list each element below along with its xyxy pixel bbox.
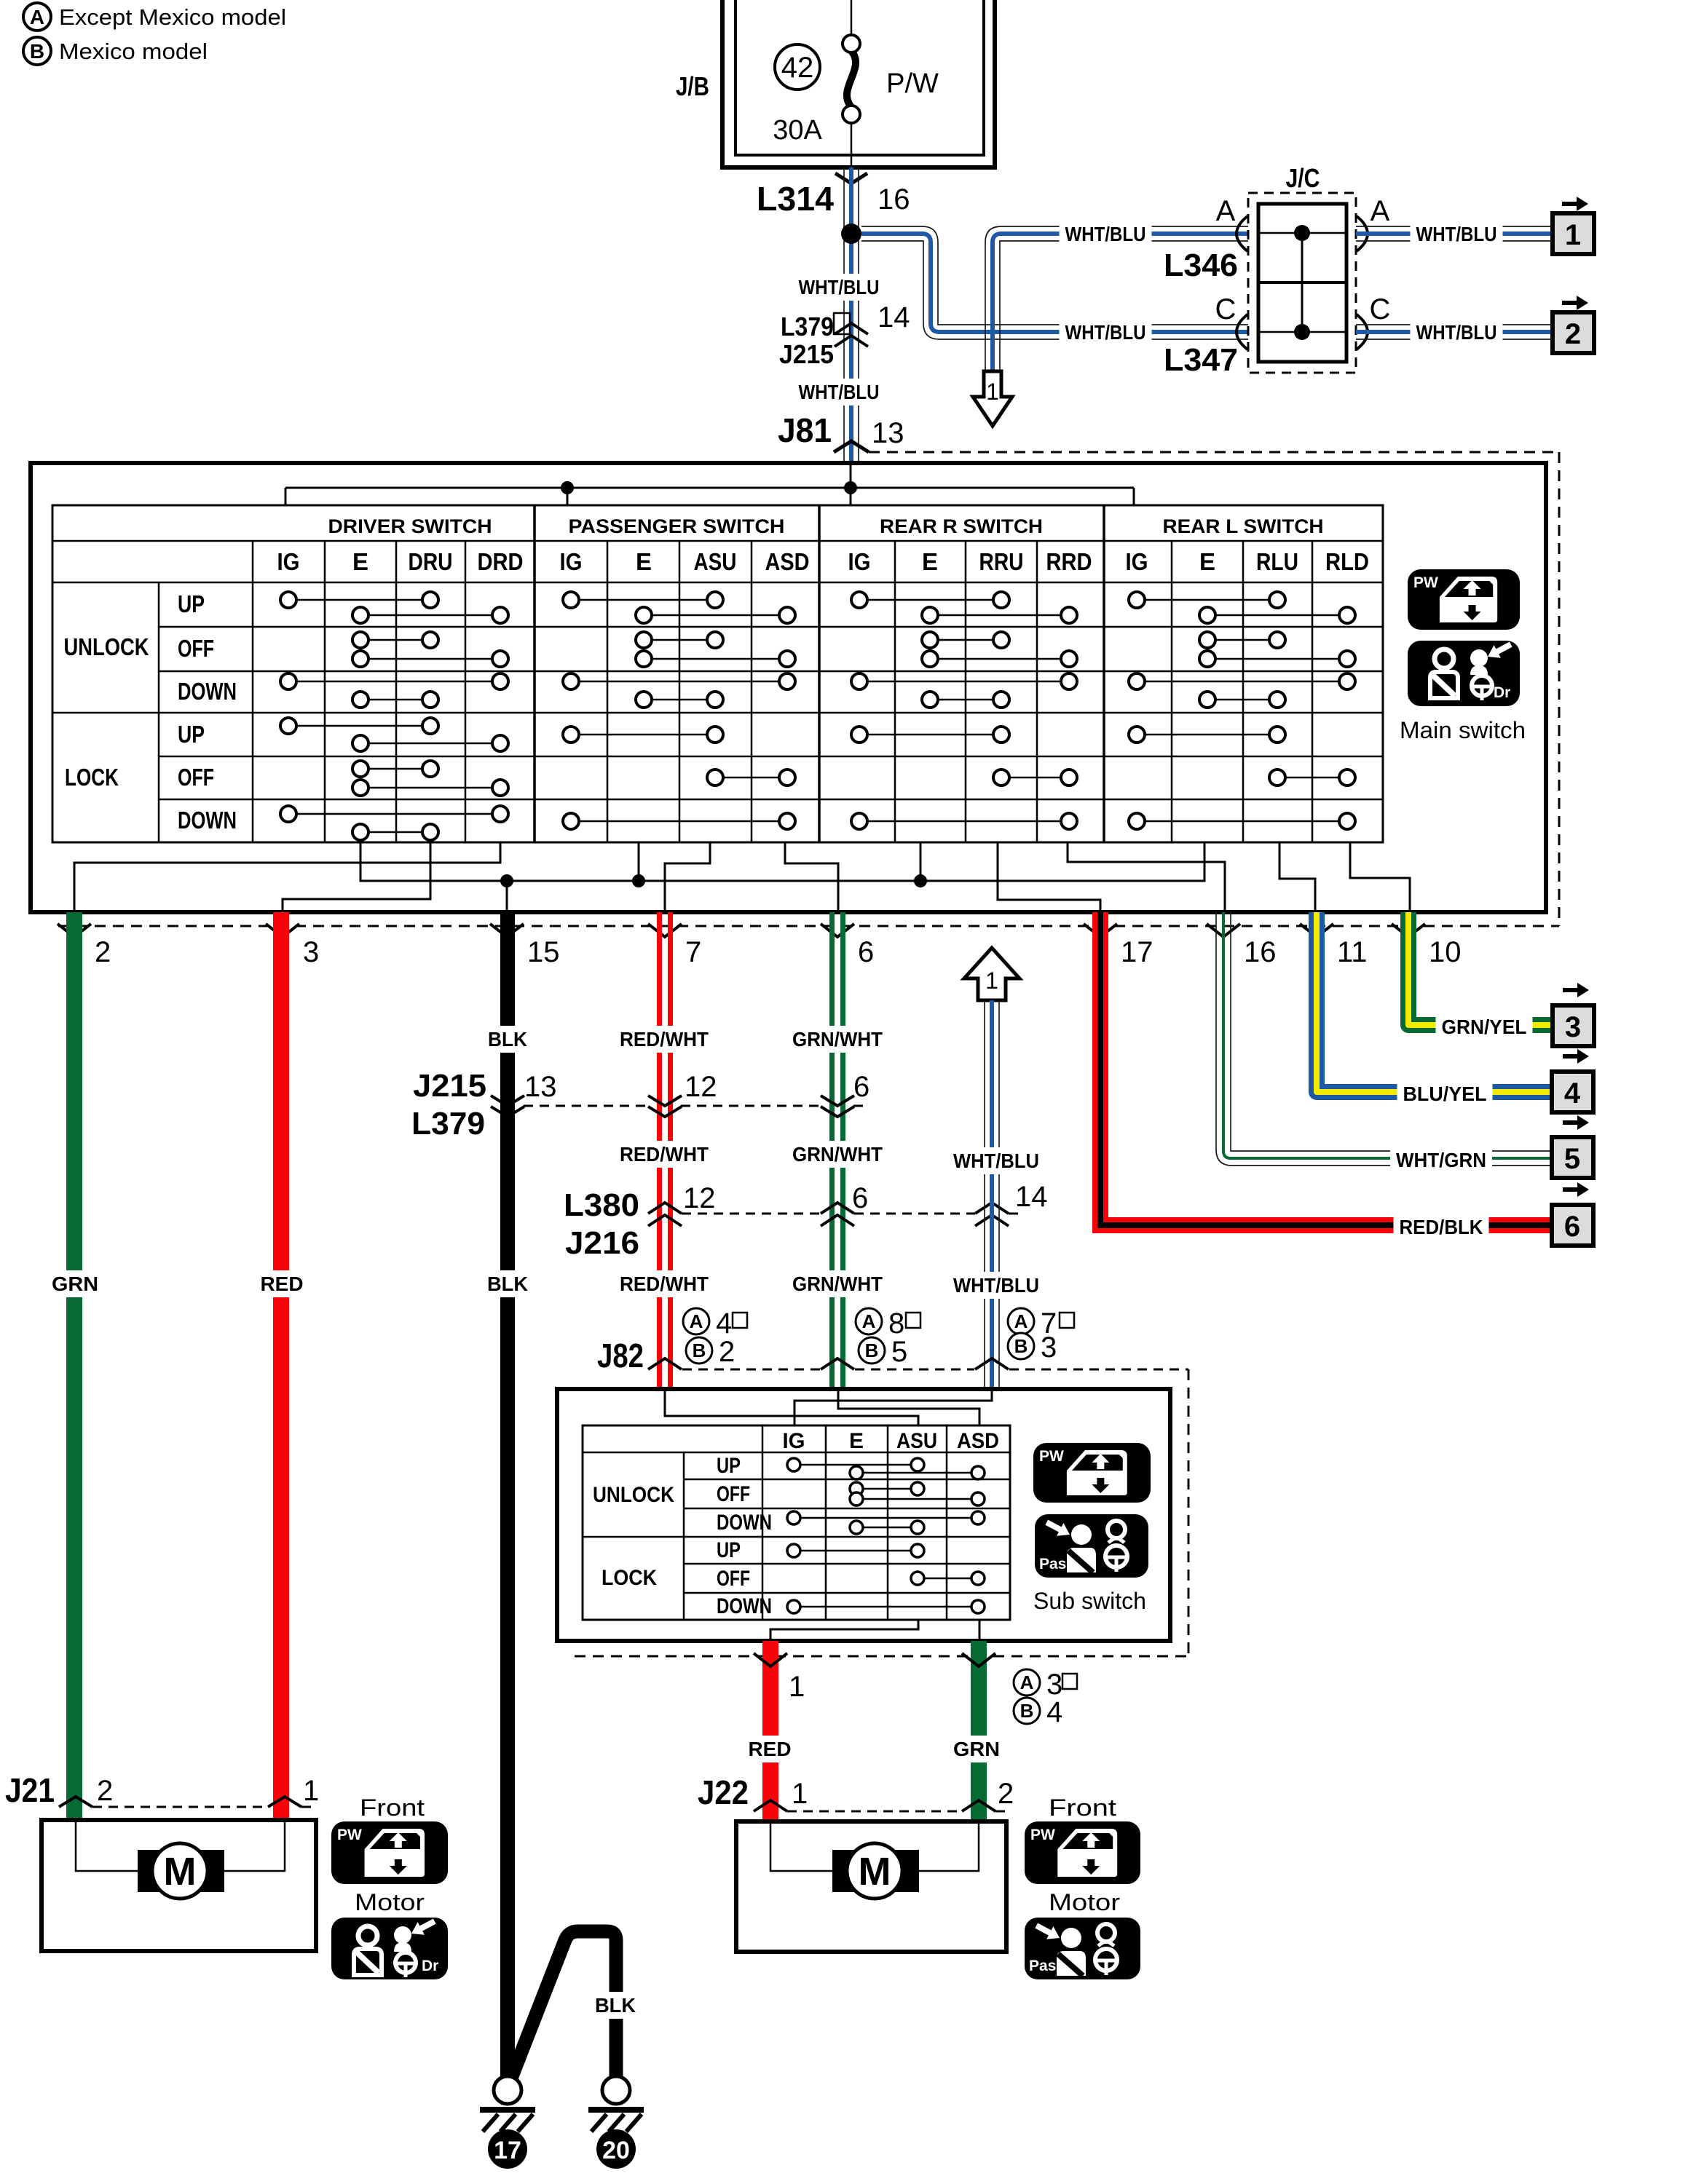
wire WHT/BLU arrow to sub switch bbox=[985, 1000, 999, 1389]
svg-text:J81: J81 bbox=[778, 411, 832, 449]
svg-text:2: 2 bbox=[998, 1778, 1014, 1810]
front motor (driver) bbox=[42, 1820, 316, 1951]
main switch contact table bbox=[52, 505, 1383, 842]
main switch pin 2 exit bbox=[58, 924, 111, 968]
wire WHT/BLU to connector 2 bbox=[1356, 325, 1553, 339]
svg-text:4: 4 bbox=[1046, 1696, 1062, 1728]
driver motor Dr icon bbox=[331, 1915, 448, 1979]
svg-text:OFF: OFF bbox=[717, 1567, 750, 1591]
main switch pin 6 exit bbox=[821, 924, 874, 968]
svg-text:OFF: OFF bbox=[178, 635, 214, 662]
svg-text:OFF: OFF bbox=[178, 764, 214, 791]
main switch unit box bbox=[31, 463, 1546, 912]
svg-text:WHT/BLU: WHT/BLU bbox=[1416, 321, 1497, 344]
wire label WHT/BLU bbox=[947, 1272, 1045, 1299]
svg-text:Pas: Pas bbox=[1029, 1958, 1056, 1974]
svg-text:REAR R SWITCH: REAR R SWITCH bbox=[880, 515, 1043, 537]
svg-text:B: B bbox=[865, 1340, 879, 1361]
svg-text:B: B bbox=[693, 1340, 706, 1361]
svg-text:42: 42 bbox=[781, 52, 814, 84]
wire WHT/BLU from fuse to main switch bbox=[844, 167, 859, 463]
svg-text:L379: L379 bbox=[781, 312, 834, 341]
connector terminal 3 bbox=[1553, 983, 1594, 1046]
wire label GRN/WHT bbox=[786, 1270, 888, 1297]
svg-text:WHT/BLU: WHT/BLU bbox=[1065, 223, 1146, 245]
svg-text:DOWN: DOWN bbox=[178, 807, 237, 834]
junction connector J/C (L346/L347) bbox=[1248, 163, 1356, 373]
svg-text:12: 12 bbox=[683, 1182, 716, 1214]
wire RRD to pin 16 bbox=[1068, 842, 1225, 912]
wire label WHT/BLU bbox=[1411, 221, 1503, 248]
wire RED/WHT to ASU column bbox=[665, 1389, 918, 1425]
J82 pin labels A4/B2 bbox=[683, 1307, 747, 1368]
wire label WHT/BLU (A row) bbox=[1060, 221, 1152, 248]
svg-text:IG: IG bbox=[783, 1429, 805, 1453]
svg-text:RED/WHT: RED/WHT bbox=[620, 1143, 709, 1166]
label L347 bbox=[1164, 342, 1238, 378]
svg-text:6: 6 bbox=[1564, 1211, 1580, 1243]
wire label BLK bbox=[482, 1026, 533, 1053]
svg-text:DRIVER SWITCH: DRIVER SWITCH bbox=[328, 515, 492, 537]
driver motor PW icon bbox=[331, 1821, 448, 1884]
wire RED pin 3 to driver motor bbox=[273, 912, 289, 1820]
sub switch passenger icon bbox=[1035, 1514, 1148, 1578]
svg-text:J82: J82 bbox=[597, 1337, 644, 1374]
fuse 42 30A P/W bbox=[773, 0, 939, 167]
wire RRU to pin 17 bbox=[998, 842, 1100, 912]
svg-text:WHT/BLU: WHT/BLU bbox=[799, 276, 880, 298]
svg-text:Motor: Motor bbox=[355, 1889, 425, 1915]
svg-text:BLK: BLK bbox=[595, 1994, 636, 2017]
svg-text:2: 2 bbox=[719, 1336, 735, 1368]
svg-text:11: 11 bbox=[1337, 936, 1368, 968]
svg-text:PW: PW bbox=[1413, 574, 1438, 591]
svg-text:BLK: BLK bbox=[487, 1273, 528, 1295]
svg-text:14: 14 bbox=[1015, 1181, 1048, 1213]
svg-text:IG: IG bbox=[848, 548, 871, 575]
label Sub switch bbox=[1033, 1588, 1146, 1614]
main switch pin 7 exit bbox=[648, 924, 701, 968]
wire WHT/GRN pin 16 to connector 5 bbox=[1216, 912, 1552, 1166]
svg-text:B: B bbox=[1020, 1700, 1034, 1722]
wire GRN/WHT pin 6 to sub switch bbox=[832, 912, 843, 1389]
svg-text:17: 17 bbox=[494, 2137, 521, 2164]
svg-text:GRN/YEL: GRN/YEL bbox=[1442, 1016, 1527, 1038]
connector terminal 1 bbox=[1553, 197, 1594, 254]
wire GRN sub pin to passenger motor bbox=[971, 1641, 987, 1821]
svg-text:J216: J216 bbox=[565, 1225, 639, 1261]
main switch pin 11 exit bbox=[1300, 924, 1368, 968]
svg-text:Front: Front bbox=[360, 1795, 425, 1821]
svg-text:Pas: Pas bbox=[1039, 1556, 1066, 1572]
svg-text:3: 3 bbox=[1041, 1332, 1057, 1364]
svg-text:M: M bbox=[164, 1850, 197, 1894]
svg-text:PW: PW bbox=[1030, 1827, 1055, 1843]
internal IG supply bus bbox=[285, 463, 1134, 506]
sub pin 1 exit bbox=[754, 1653, 805, 1703]
svg-text:A: A bbox=[690, 1310, 703, 1332]
rear R switch contacts bbox=[851, 592, 1077, 829]
svg-text:DRU: DRU bbox=[409, 548, 453, 575]
connector boundary (dashed) of main switch bbox=[58, 452, 1559, 926]
wire label RED/WHT bbox=[614, 1026, 714, 1053]
svg-text:E: E bbox=[922, 548, 938, 575]
connector terminal 4 bbox=[1552, 1049, 1593, 1112]
svg-text:14: 14 bbox=[877, 301, 910, 333]
label L346 bbox=[1164, 248, 1238, 283]
wire DRD to pin 2 bbox=[74, 842, 500, 912]
wire label RED/WHT bbox=[614, 1270, 714, 1297]
svg-text:J22: J22 bbox=[698, 1773, 749, 1811]
passenger motor Pas icon bbox=[1025, 1918, 1140, 1979]
connector J215/L379 pins 13 12 6 bbox=[411, 1068, 869, 1142]
svg-text:A: A bbox=[1216, 195, 1236, 227]
svg-text:GRN/WHT: GRN/WHT bbox=[792, 1273, 883, 1295]
svg-text:RED: RED bbox=[261, 1273, 304, 1295]
legend note A bbox=[23, 3, 286, 31]
svg-text:DOWN: DOWN bbox=[178, 678, 237, 705]
svg-text:E: E bbox=[1199, 548, 1215, 575]
svg-text:E: E bbox=[352, 548, 368, 575]
sub switch unit box bbox=[557, 1389, 1170, 1641]
svg-text:J215: J215 bbox=[413, 1068, 486, 1104]
main switch pin 17 exit bbox=[1084, 924, 1153, 968]
connector J82 bbox=[597, 1337, 1188, 1374]
wire label WHT/GRN bbox=[1390, 1147, 1492, 1174]
svg-text:BLU/YEL: BLU/YEL bbox=[1403, 1083, 1487, 1105]
svg-text:J21: J21 bbox=[5, 1771, 55, 1809]
svg-text:WHT/BLU: WHT/BLU bbox=[799, 381, 880, 403]
wire label GRN/YEL bbox=[1436, 1013, 1533, 1040]
wire ASU to sub pin 1 bbox=[770, 1620, 918, 1641]
svg-text:15: 15 bbox=[527, 936, 560, 968]
svg-text:WHT/BLU: WHT/BLU bbox=[953, 1150, 1039, 1172]
connector L380/J216 pins 12 6 14 bbox=[564, 1181, 1048, 1261]
main switch pin 15 exit bbox=[490, 924, 560, 968]
svg-text:Front: Front bbox=[1049, 1795, 1116, 1821]
wire label BLK bbox=[481, 1270, 534, 1297]
svg-text:DOWN: DOWN bbox=[717, 1511, 772, 1535]
label Main switch bbox=[1400, 717, 1526, 743]
svg-text:WHT/BLU: WHT/BLU bbox=[1416, 223, 1497, 245]
svg-text:RRD: RRD bbox=[1046, 548, 1092, 575]
svg-text:RRU: RRU bbox=[979, 548, 1024, 575]
svg-text:16: 16 bbox=[877, 183, 910, 215]
svg-text:4: 4 bbox=[1564, 1077, 1581, 1109]
wire label WHT/BLU (C row) bbox=[1060, 319, 1152, 346]
svg-text:ASD: ASD bbox=[765, 548, 810, 575]
E common bus to pin 15 bbox=[360, 842, 1204, 912]
connector terminal 6 bbox=[1552, 1182, 1593, 1246]
J/C terminal A right bbox=[1357, 195, 1390, 251]
wire WHT/BLU to connector 1 bbox=[1356, 226, 1553, 241]
svg-text:WHT/BLU: WHT/BLU bbox=[1065, 321, 1146, 344]
svg-text:30A: 30A bbox=[773, 115, 822, 146]
svg-text:UP: UP bbox=[178, 721, 205, 748]
wire ASD to pin 6 bbox=[785, 842, 838, 912]
sub switch dashed connector boundary bbox=[575, 1369, 1188, 1656]
svg-text:1: 1 bbox=[986, 379, 999, 405]
wire WHT/BLU to IG column bbox=[794, 1389, 992, 1425]
svg-text:L380: L380 bbox=[564, 1187, 639, 1223]
svg-text:7: 7 bbox=[685, 936, 701, 968]
svg-text:J215: J215 bbox=[779, 339, 834, 369]
wire BLK branch to ground 20 bbox=[512, 1931, 616, 2077]
passenger motor Motor label bbox=[1049, 1889, 1120, 1915]
passenger motor Front label bbox=[1049, 1795, 1116, 1821]
svg-text:4: 4 bbox=[716, 1307, 732, 1340]
svg-text:GRN: GRN bbox=[953, 1738, 1000, 1760]
svg-text:17: 17 bbox=[1121, 936, 1153, 968]
connector L379/J215 pin 14 bbox=[779, 301, 910, 369]
svg-text:1: 1 bbox=[303, 1775, 319, 1807]
svg-text:WHT/GRN: WHT/GRN bbox=[1396, 1149, 1486, 1171]
main switch PW icon bbox=[1408, 569, 1520, 630]
wire ASU to pin 7 bbox=[665, 842, 710, 912]
svg-text:UP: UP bbox=[717, 1454, 741, 1478]
svg-text:UP: UP bbox=[178, 590, 205, 617]
sub switch contact table bbox=[583, 1425, 1010, 1620]
svg-text:6: 6 bbox=[853, 1071, 869, 1103]
wire label GRN bbox=[46, 1270, 104, 1297]
connector J22 pins 1 2 bbox=[698, 1773, 1014, 1811]
J/C terminal C left bbox=[1215, 293, 1247, 349]
wire label WHT/BLU bbox=[1411, 319, 1503, 346]
driver motor Front label bbox=[360, 1795, 425, 1821]
connector L314 pin 16 bbox=[757, 173, 910, 218]
J/C terminal C right bbox=[1357, 293, 1390, 349]
wire label BLK bbox=[589, 1992, 642, 2019]
svg-text:PASSENGER SWITCH: PASSENGER SWITCH bbox=[569, 515, 785, 537]
svg-text:WHT/BLU: WHT/BLU bbox=[953, 1274, 1039, 1297]
svg-text:A: A bbox=[862, 1310, 876, 1332]
svg-text:L346: L346 bbox=[1164, 248, 1238, 283]
connector J81 pin 13 bbox=[778, 411, 904, 452]
wire label RED bbox=[255, 1270, 309, 1297]
svg-text:Except Mexico model: Except Mexico model bbox=[59, 4, 286, 30]
svg-text:C: C bbox=[1370, 293, 1391, 325]
svg-text:10: 10 bbox=[1429, 936, 1462, 968]
svg-text:ASU: ASU bbox=[896, 1429, 937, 1453]
wire BLK pin 15 to grounds bbox=[500, 912, 515, 2077]
svg-text:RLD: RLD bbox=[1325, 548, 1369, 575]
wire label RED/BLK bbox=[1394, 1214, 1489, 1241]
svg-text:Main switch: Main switch bbox=[1400, 717, 1526, 743]
svg-text:GRN: GRN bbox=[52, 1273, 98, 1295]
svg-text:REAR L SWITCH: REAR L SWITCH bbox=[1163, 515, 1324, 537]
svg-text:16: 16 bbox=[1244, 936, 1277, 968]
wire label RED bbox=[743, 1736, 797, 1762]
svg-text:20: 20 bbox=[602, 2137, 630, 2164]
svg-text:2: 2 bbox=[95, 936, 111, 968]
svg-text:RED/WHT: RED/WHT bbox=[620, 1273, 709, 1295]
wire RED sub pin 1 to passenger motor bbox=[762, 1641, 778, 1821]
svg-text:DRD: DRD bbox=[478, 548, 524, 575]
svg-text:1: 1 bbox=[985, 968, 998, 994]
svg-text:E: E bbox=[849, 1429, 864, 1453]
svg-text:A: A bbox=[1370, 195, 1390, 227]
svg-text:A: A bbox=[1014, 1310, 1028, 1332]
front motor (passenger) bbox=[736, 1821, 1006, 1952]
wire label BLU/YEL bbox=[1397, 1080, 1493, 1107]
connector terminal 2 bbox=[1553, 296, 1594, 353]
svg-text:RLU: RLU bbox=[1256, 548, 1298, 575]
ground 17 bbox=[480, 2076, 535, 2169]
passenger motor PW icon bbox=[1025, 1821, 1140, 1884]
svg-text:P/W: P/W bbox=[886, 68, 939, 99]
svg-text:2: 2 bbox=[1565, 318, 1581, 350]
svg-text:E: E bbox=[636, 548, 652, 575]
svg-text:6: 6 bbox=[858, 936, 874, 968]
wire ASD to sub pin A3/B4 bbox=[979, 1620, 981, 1641]
svg-text:Dr: Dr bbox=[422, 1958, 438, 1974]
wire DRU to pin 3 bbox=[283, 842, 430, 912]
svg-text:13: 13 bbox=[872, 417, 904, 449]
svg-text:2: 2 bbox=[97, 1775, 113, 1807]
svg-text:L314: L314 bbox=[757, 180, 834, 218]
wire label WHT/BLU bbox=[793, 274, 886, 301]
svg-text:B: B bbox=[30, 40, 44, 63]
junction block J/B bbox=[676, 0, 995, 167]
svg-text:Dr: Dr bbox=[1494, 684, 1510, 701]
svg-text:Sub switch: Sub switch bbox=[1033, 1588, 1146, 1614]
svg-text:GRN/WHT: GRN/WHT bbox=[792, 1028, 883, 1051]
svg-text:LOCK: LOCK bbox=[602, 1566, 657, 1590]
wire label GRN/WHT bbox=[786, 1141, 888, 1168]
svg-text:6: 6 bbox=[852, 1182, 868, 1214]
wire RED/WHT pin 7 to sub switch bbox=[660, 912, 671, 1389]
svg-text:BLK: BLK bbox=[488, 1028, 527, 1051]
svg-text:13: 13 bbox=[524, 1071, 557, 1103]
wire label WHT/BLU bbox=[947, 1147, 1045, 1174]
wire RLU to pin 11 bbox=[1279, 842, 1315, 912]
svg-text:3: 3 bbox=[1565, 1011, 1581, 1043]
off-page arrow 1 (up) bbox=[964, 948, 1019, 1000]
svg-text:RED/WHT: RED/WHT bbox=[620, 1028, 709, 1051]
svg-text:B: B bbox=[1014, 1335, 1028, 1357]
svg-text:UNLOCK: UNLOCK bbox=[64, 633, 149, 660]
svg-text:5: 5 bbox=[891, 1336, 907, 1368]
wire RED/BLK pin 17 to connector 6 bbox=[1100, 912, 1552, 1225]
svg-text:1: 1 bbox=[789, 1671, 805, 1703]
svg-text:C: C bbox=[1215, 293, 1237, 325]
connector J21 pins 2 1 bbox=[5, 1771, 319, 1809]
svg-text:1: 1 bbox=[792, 1778, 808, 1810]
rear L switch contacts bbox=[1129, 592, 1355, 829]
passenger switch contacts bbox=[563, 592, 795, 829]
svg-text:DOWN: DOWN bbox=[717, 1594, 772, 1618]
wire GRN/YEL pin 10 to connector 3 bbox=[1408, 912, 1552, 1025]
svg-text:Motor: Motor bbox=[1049, 1889, 1120, 1915]
wire label WHT/BLU (over wire) bbox=[947, 1147, 1045, 1174]
main switch driver icon bbox=[1408, 638, 1520, 706]
svg-text:J/C: J/C bbox=[1286, 163, 1320, 193]
wire WHT/BLU from arrow 1 to L346 A bbox=[985, 226, 1248, 371]
svg-text:12: 12 bbox=[685, 1071, 717, 1103]
svg-text:A: A bbox=[30, 6, 44, 28]
wire WHT/BLU branch to L347 C bbox=[861, 226, 1248, 339]
svg-text:L379: L379 bbox=[411, 1106, 485, 1142]
sub switch PW icon bbox=[1033, 1443, 1151, 1503]
J82 pin labels A8/B5 bbox=[856, 1307, 920, 1368]
driver motor Motor label bbox=[355, 1889, 425, 1915]
wire GRN/WHT to ASD column bbox=[838, 1389, 979, 1425]
wire label GRN bbox=[947, 1736, 1006, 1762]
svg-text:LOCK: LOCK bbox=[65, 764, 119, 791]
J/C terminal A left bbox=[1216, 195, 1247, 251]
svg-text:M: M bbox=[859, 1850, 891, 1894]
main switch pin 16 exit bbox=[1207, 924, 1277, 968]
svg-text:IG: IG bbox=[560, 548, 583, 575]
legend note B bbox=[23, 37, 208, 65]
svg-text:1: 1 bbox=[1565, 219, 1581, 251]
driver switch contacts bbox=[280, 592, 508, 840]
wire label WHT/BLU bbox=[793, 379, 886, 405]
svg-text:5: 5 bbox=[1564, 1143, 1580, 1175]
svg-text:RED/BLK: RED/BLK bbox=[1400, 1216, 1483, 1238]
svg-text:ASD: ASD bbox=[957, 1429, 999, 1453]
wire label RED/WHT bbox=[614, 1141, 714, 1168]
svg-text:PW: PW bbox=[1039, 1448, 1064, 1465]
main switch pin 10 exit bbox=[1392, 924, 1462, 968]
svg-text:IG: IG bbox=[277, 548, 300, 575]
svg-text:ASU: ASU bbox=[694, 548, 737, 575]
svg-text:RED: RED bbox=[749, 1738, 792, 1760]
svg-text:3: 3 bbox=[303, 936, 319, 968]
svg-text:UNLOCK: UNLOCK bbox=[593, 1483, 674, 1507]
svg-text:GRN/WHT: GRN/WHT bbox=[792, 1143, 883, 1166]
svg-text:A: A bbox=[1020, 1671, 1034, 1693]
junction node (dot) bbox=[841, 223, 861, 244]
svg-text:8: 8 bbox=[888, 1307, 904, 1340]
svg-text:OFF: OFF bbox=[717, 1482, 750, 1506]
wire BLU/YEL pin 11 to connector 4 bbox=[1317, 912, 1552, 1092]
off-page arrow 1 (down) bbox=[973, 371, 1012, 426]
svg-text:IG: IG bbox=[1126, 548, 1148, 575]
connector terminal 5 bbox=[1552, 1115, 1593, 1178]
wire GRN pin 2 to driver motor bbox=[66, 912, 82, 1820]
sub switch contacts bbox=[787, 1458, 985, 1613]
svg-text:UP: UP bbox=[717, 1538, 741, 1562]
svg-text:J/B: J/B bbox=[676, 71, 709, 101]
J82 pin labels A7/B3 bbox=[1008, 1307, 1074, 1364]
svg-text:Mexico model: Mexico model bbox=[59, 39, 208, 64]
svg-text:L347: L347 bbox=[1164, 342, 1238, 378]
main switch pin 3 exit bbox=[266, 924, 319, 968]
ground 20 bbox=[588, 2076, 644, 2169]
sub pin A3/B4 exit bbox=[962, 1653, 1077, 1728]
wire RLD to pin 10 bbox=[1350, 842, 1410, 912]
wire label GRN/WHT bbox=[786, 1026, 888, 1053]
svg-text:PW: PW bbox=[337, 1827, 362, 1843]
